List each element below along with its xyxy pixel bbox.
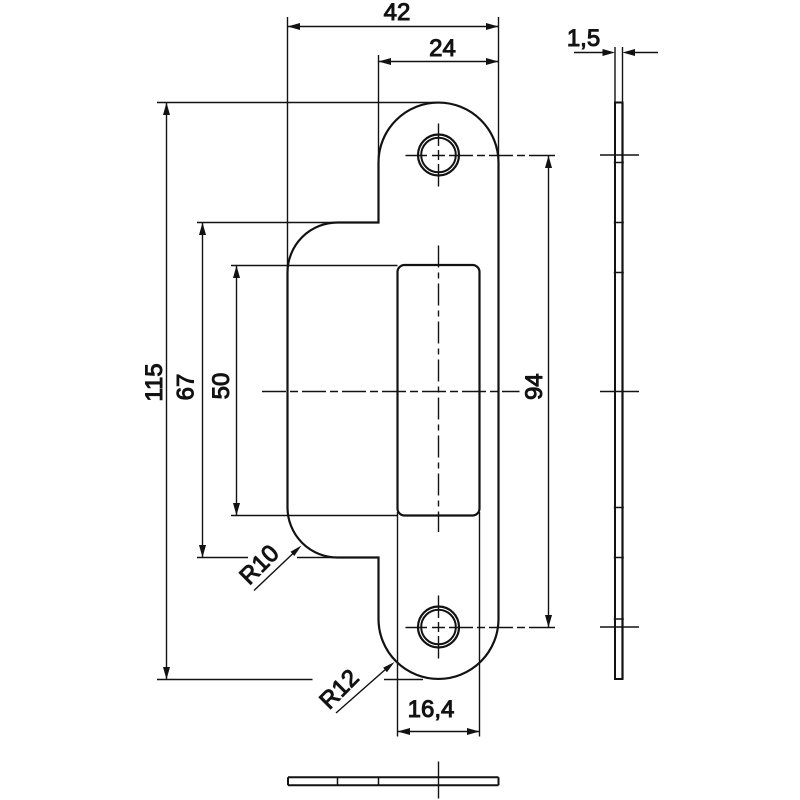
dimension 94 line: [548, 156, 550, 628]
dimension 42 line: [288, 26, 499, 28]
dimension 50 line: [236, 266, 238, 516]
dimension 115 extension lines: [157, 103, 437, 680]
dimension 67 extension lines: [197, 223, 338, 558]
side view centerlines: [600, 155, 639, 627]
top hole centerline horizontal + 94 extension: [406, 155, 556, 157]
opening vertical centerline: [438, 246, 440, 533]
dimension 115 line: [166, 103, 168, 680]
svg-text:94: 94: [521, 373, 548, 400]
dimension 16,4 arrows: [398, 728, 411, 735]
mid horizontal centerline: [262, 391, 520, 393]
radius label R10 arrow: [291, 546, 302, 557]
dimension 67 arrows: [199, 223, 206, 236]
dimension 1,5 extension lines: [615, 47, 623, 103]
dimension 67 line: [202, 223, 204, 558]
bottom screw hole outer: [418, 607, 459, 648]
radius label R12 leader: [336, 669, 387, 714]
svg-text:50: 50: [208, 373, 235, 400]
dimension 42 extension lines: [288, 17, 499, 273]
top screw hole inner: [421, 138, 456, 173]
bottom view centerline: [438, 762, 440, 799]
bottom view outline: [288, 777, 499, 785]
radius label R12 arrow: [383, 662, 394, 672]
bottom view edge ticks: [338, 777, 379, 785]
dimension 16,4 extension lines: [398, 512, 480, 737]
top screw hole outer: [418, 135, 459, 176]
dimension 24 arrows: [379, 58, 392, 65]
top hole centerline vertical: [438, 124, 440, 187]
dimension 115 arrows: [163, 103, 170, 116]
bottom hole centerline horizontal + 94 extension: [406, 627, 556, 629]
svg-text:16,4: 16,4: [408, 696, 455, 723]
svg-text:24: 24: [429, 35, 456, 62]
svg-text:67: 67: [172, 374, 199, 401]
dimension 16,4 line: [398, 731, 480, 733]
dimension 50 arrows: [233, 266, 240, 279]
svg-text:1,5: 1,5: [567, 25, 600, 52]
dimension 24 extension line: [378, 55, 380, 163]
side view right edge: [621, 103, 623, 680]
dimension 42 arrows: [288, 23, 301, 30]
side view top cap: [614, 102, 624, 104]
side view left edge: [614, 103, 616, 680]
radius label R10 leader: [254, 554, 293, 591]
side view edge ticks: [614, 163, 624, 620]
bottom screw hole inner: [421, 610, 456, 645]
dimension 94 arrows: [545, 156, 552, 169]
latch opening: [398, 265, 480, 516]
dimension 24 line: [379, 61, 499, 63]
svg-text:42: 42: [384, 0, 411, 26]
dimension 1,5 lines: [574, 52, 658, 54]
svg-text:115: 115: [141, 363, 168, 401]
dimension 50 extension lines: [231, 266, 398, 516]
plate outline front view: [288, 103, 499, 679]
bottom hole centerline vertical: [438, 596, 440, 659]
side view bottom cap: [614, 678, 624, 680]
dimension 1,5 arrows: [603, 49, 616, 56]
